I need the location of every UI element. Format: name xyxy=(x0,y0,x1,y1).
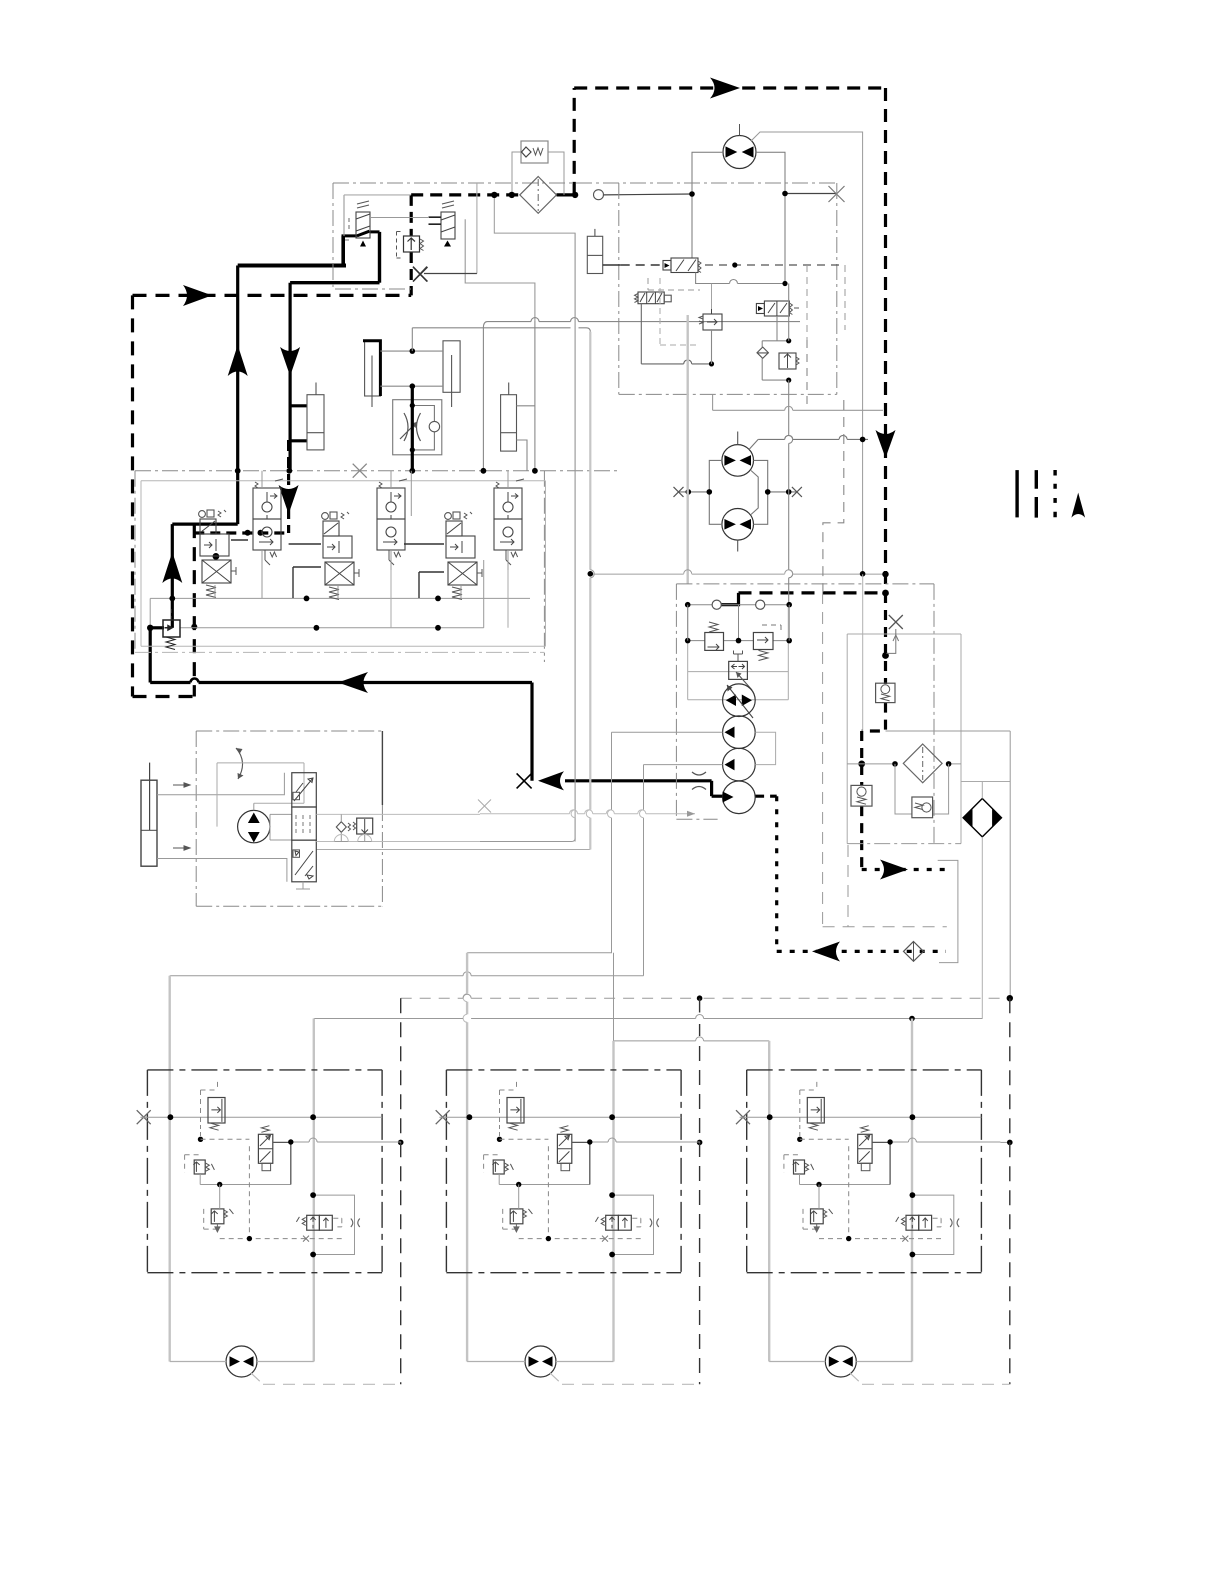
wire V4 top feed xyxy=(390,471,392,570)
legend solid bar xyxy=(1015,470,1018,517)
legend arrow xyxy=(1071,493,1085,518)
wire column x573 from filter drain xyxy=(574,233,576,841)
motor M1 shaft stub xyxy=(739,124,741,136)
wire x169 down to block1 xyxy=(168,976,170,1362)
wire V2 top feed xyxy=(261,471,263,599)
relief RV3 spring right xyxy=(796,357,799,365)
wire bold dashed horizontal y533 under valve1 xyxy=(194,531,288,534)
enclosure box1 right edge xyxy=(836,183,838,394)
wire CYL2-CYL3 bottom link xyxy=(380,385,443,387)
wire column x611 pump2 supply down xyxy=(467,732,611,953)
wire bold vertical x150 xyxy=(149,628,152,683)
wire P2 left supply to x611 xyxy=(612,731,723,733)
relief R-LS spring below xyxy=(166,637,175,650)
valve SV2 tab right xyxy=(664,295,671,302)
X plug left xyxy=(413,267,427,282)
wire PV1 to PV2 gray xyxy=(370,217,429,219)
wire bold dashed pump outlet y592 xyxy=(739,591,886,594)
reducing valve PR1 body xyxy=(703,314,722,330)
wire DV1 out upper y814 xyxy=(316,813,480,815)
wire bold vertical x532 xyxy=(530,683,533,781)
motor WM3 arrows xyxy=(829,1356,853,1367)
valve PV2 spring top xyxy=(442,201,454,208)
wire gray box top under dashes xyxy=(344,194,411,196)
wire column x643 pump3 supply down xyxy=(643,765,645,976)
wire return rail y1018 xyxy=(314,1018,983,1020)
valve PV2 supply stubs black xyxy=(429,217,442,224)
pump P4 arrow xyxy=(723,792,734,803)
spring SPL xyxy=(348,822,356,831)
wire corner x575 to y842 xyxy=(572,838,576,842)
relief R-LS body xyxy=(163,609,180,650)
wire dashed x807 pilot xyxy=(806,340,808,410)
cylinder CYL1 (left) xyxy=(307,395,324,450)
arrow down on x288 dashed xyxy=(279,485,299,514)
wire bold vertical x290 down to bank top xyxy=(289,283,292,471)
motor M2 circle xyxy=(722,445,754,477)
wire PV2 output loop xyxy=(465,219,535,321)
wire bold horizontal y524 xyxy=(172,522,237,525)
wire V6 load line down xyxy=(507,570,509,628)
junction dot motor leg xyxy=(689,191,695,197)
motor HM1 circle xyxy=(238,810,270,842)
wire pale y813 with hops xyxy=(480,813,695,815)
arrow right on y869 dotted xyxy=(880,860,908,880)
junction dot y386 xyxy=(410,383,416,389)
valve bank V6 xyxy=(494,479,524,565)
arrow left on y951 dotted xyxy=(812,942,840,962)
wire bold horizontal y780 to pump suction xyxy=(565,779,712,782)
wire tank box to x1010 y781 xyxy=(961,782,1010,799)
wire DV1 bottom drain xyxy=(296,882,310,889)
wire bold dashed left border vertical x132 xyxy=(131,295,134,696)
arrow right on y295 dashed xyxy=(183,285,212,306)
hop arc y283 xyxy=(730,280,738,284)
arrow up on x172 xyxy=(162,552,182,583)
link LS V2-V3 xyxy=(289,543,321,545)
relief RP2 spring bottom xyxy=(759,650,768,660)
wire V3 drain xyxy=(337,585,339,598)
arrow left on y682 xyxy=(338,672,368,693)
pump P1 variable circle xyxy=(723,684,756,717)
arrow right on top dashed line xyxy=(710,78,740,99)
wire plug stub to bold line xyxy=(887,629,896,653)
arrow right small on y813 xyxy=(687,811,695,817)
wire V6 top feed xyxy=(507,471,509,570)
motor WM2 circle xyxy=(525,1346,556,1377)
valve SV3 spring right xyxy=(789,303,799,315)
wire bold dashed below case relief to corner xyxy=(862,703,886,731)
wire WM1 drain diagonal dashed xyxy=(251,1373,401,1384)
pump P1 swash diagonal xyxy=(727,685,753,718)
junction dots left port xyxy=(686,489,692,495)
wire x411 bank branch xyxy=(410,471,412,516)
relief RP2 body xyxy=(753,633,773,650)
wire bold dashed pump4 case drain xyxy=(755,795,777,798)
wire tank to valve upper xyxy=(157,773,284,795)
enclosure box1 left edge xyxy=(618,183,620,394)
wire WM3 legs xyxy=(769,1361,912,1363)
wire bold dashed vertical filter to top xyxy=(573,88,576,195)
wire bold vertical x711 xyxy=(710,781,713,796)
junction dots right port xyxy=(765,489,771,495)
case relief CR1 body xyxy=(876,683,895,702)
wire bold dashed x885 down to case relief xyxy=(884,593,887,684)
valve PV2 drain triangle xyxy=(444,241,451,247)
valve bank V4 xyxy=(377,479,407,565)
valve SV1 solenoid xyxy=(663,261,671,271)
junction dots loop xyxy=(786,338,791,343)
check valve CK3 xyxy=(757,347,769,358)
wire motor to valve ports xyxy=(254,803,292,840)
pump P3 circle xyxy=(723,748,756,781)
wire SV2 drain down xyxy=(640,304,642,364)
link V1-V2 xyxy=(231,539,248,541)
cylinder CYL4 (right) xyxy=(501,395,517,451)
wheel block WB2 xyxy=(436,1070,700,1273)
wire coupler column down xyxy=(981,837,983,1019)
wire DV1 out lower y841 xyxy=(316,841,480,843)
valve PV1 pilot dashes left xyxy=(345,218,352,240)
relief RP2 pilot dashes xyxy=(762,625,781,632)
motor HM1 arrows xyxy=(248,813,260,843)
pilot dashes inside box1 xyxy=(807,265,845,340)
valve SV3 (solenoid right) body xyxy=(764,301,789,316)
valve PV1 spring top xyxy=(357,201,369,208)
relief CR2 body xyxy=(851,785,872,806)
arrow down on right dashed vertical xyxy=(876,430,896,458)
junction dots y998 xyxy=(697,995,703,1001)
wire patch block3 pilot to x1009 xyxy=(1000,1141,1009,1143)
wire left port y491 xyxy=(679,491,710,493)
enclosure right edge solid part xyxy=(381,731,383,805)
wire motor M1 case drain diagonal to right column xyxy=(751,132,863,183)
wire relief row y640 xyxy=(688,640,790,642)
valve bank V2 xyxy=(253,479,283,565)
link bank feed diagonal V5 xyxy=(419,572,444,598)
wire P3 left supply to x643 xyxy=(644,764,723,766)
wire gray x344 xyxy=(343,195,345,236)
relief RP1 spring top xyxy=(709,622,718,632)
wire black line motor1 right leg to plug xyxy=(785,193,837,195)
enclosure dash-dot box xyxy=(196,731,382,906)
wire bold filter outlet segment xyxy=(557,193,576,196)
wire y363 link xyxy=(641,360,711,364)
wire black from CYL-R to dashed pilot valve line xyxy=(603,264,621,266)
valve SV1 (on dashed y265) body xyxy=(671,258,698,273)
drain bracket right xyxy=(938,860,958,962)
motor WM1 circle xyxy=(226,1346,257,1377)
wire bank collector y627 xyxy=(180,627,484,629)
cylinder CYL2 (vertical, bold edge) xyxy=(365,341,381,396)
wheel block WB1 xyxy=(137,1070,401,1273)
relief RP1 body xyxy=(705,633,724,651)
wire bold dashed x861 down xyxy=(860,731,863,786)
wire V4 load line down xyxy=(390,570,392,628)
check valve CKP2 xyxy=(756,600,765,609)
hop arcs y439 xyxy=(785,435,847,439)
motor M3 circle xyxy=(722,509,754,541)
compensator CMP arrow diag xyxy=(736,672,752,690)
X plug left of motors xyxy=(674,487,684,497)
valve PV2 body xyxy=(441,212,455,239)
wire bold dashed vertical x288 into bank xyxy=(287,440,290,533)
wire right column x862 into box xyxy=(862,183,864,575)
junction dots rail xyxy=(685,602,691,608)
wire dashed feed y998 xyxy=(401,997,1010,999)
return filter RF1 diamond xyxy=(903,744,942,783)
wire V5 drain xyxy=(460,585,462,598)
cylinder CYL3 xyxy=(443,341,460,393)
wire black line filter to motor1 left leg xyxy=(603,193,692,196)
motor M1 arrows xyxy=(726,146,754,157)
motor frame xyxy=(217,763,304,827)
wire bold vertical x237 down to valve bank xyxy=(236,266,239,525)
wire WM2 legs xyxy=(467,1361,613,1363)
wire bold stub to cylinder1 rod end xyxy=(289,439,307,442)
wire bold vertical x172 xyxy=(171,524,174,628)
junction dots filter line xyxy=(491,192,497,198)
arrow right lower xyxy=(173,846,190,850)
wire PR1 to y363 xyxy=(711,330,713,364)
check CK3 vertical loop xyxy=(761,341,763,380)
check valve CV-F spring xyxy=(533,148,543,155)
motor WM2 arrows xyxy=(529,1356,553,1367)
wire SV3 down to loop xyxy=(776,316,778,341)
X plug at end of return line xyxy=(517,773,532,788)
compensator CMP body xyxy=(729,661,748,679)
wire column x590 hop xyxy=(589,332,591,850)
wire P2 right link xyxy=(755,732,775,764)
enclosure tank gray box xyxy=(847,634,961,844)
wire inner drop x862 xyxy=(862,574,864,731)
valve bank V5 xyxy=(445,512,482,600)
relief RVL body xyxy=(357,818,373,834)
wire WM3 drain diagonal dashed xyxy=(850,1373,1010,1384)
wire SV1 outlet down-right xyxy=(696,273,785,284)
enclosure bank gray rect xyxy=(141,481,546,647)
pump P2 circle xyxy=(723,716,756,749)
junction dot y351 xyxy=(410,348,416,354)
check CKL ball xyxy=(336,822,346,833)
valve SV1 spring right xyxy=(698,261,701,273)
wire bold pump outlet check segment xyxy=(721,593,739,605)
wire x150 above relief xyxy=(149,598,151,627)
junction dot x861 y763 xyxy=(858,761,865,768)
wire dashed column x699 xyxy=(699,998,701,1384)
wire bold dashed top horizontal xyxy=(574,86,885,89)
wire bold dashed vertical x411 (relief branch) xyxy=(410,195,413,236)
wire pump outlet rail y604 xyxy=(688,604,790,606)
junction dots y1142 at dashed columns xyxy=(398,1140,404,1146)
wire bold dashed vertical x194 valve bank to bottom xyxy=(193,524,196,696)
pump P2 arrow xyxy=(725,727,735,739)
wire x412 up from top link xyxy=(411,328,413,351)
wire y410 drain xyxy=(713,409,883,411)
wire bold dashed x861 below relief to corner xyxy=(860,806,863,869)
X plug right of motors xyxy=(792,487,802,497)
wire x769 block3 left pale xyxy=(768,1041,770,1362)
wire y439 to right xyxy=(758,438,868,440)
wire bank collector y598 xyxy=(150,597,530,599)
junction dot inside V1 xyxy=(213,553,220,560)
junction dot pump outlet x885 xyxy=(882,590,889,597)
wire bold horizontal y265 xyxy=(238,264,346,268)
pump control gray box xyxy=(688,605,789,700)
wire WM1 legs xyxy=(170,1361,314,1363)
wire x483 from y627 up xyxy=(483,560,485,628)
wire x912 down to block3 right xyxy=(911,1019,913,1362)
enclosure tank bottom dash-dot xyxy=(847,843,961,845)
wire CYL2-CYL3 top link xyxy=(380,350,443,352)
enclosure bank dash-dot outer xyxy=(135,471,619,662)
junction dot x885 y655 xyxy=(882,652,889,659)
coupler diamond black wings xyxy=(963,799,1001,837)
relief RV2 pilot dashed bracket xyxy=(397,232,404,259)
wire bold horizontal into pump4 xyxy=(712,795,724,798)
wire M2-M3 left bracket xyxy=(709,460,722,524)
motor M3 stem xyxy=(737,540,739,551)
enclosure dashed box lower xyxy=(823,592,947,927)
wire bold staircase: valve active leg xyxy=(341,236,345,266)
link LS V4-V5 xyxy=(404,543,444,545)
wire bold horizontal into relief R-LS xyxy=(150,626,164,629)
wire x712 stub xyxy=(712,394,714,410)
wire bold dotted y951 xyxy=(777,950,946,953)
wire PR1 top to y283 xyxy=(711,284,713,310)
wire side rails xyxy=(688,605,790,641)
flow control FC1 box xyxy=(393,400,442,455)
hop arcs y321 xyxy=(483,318,578,328)
wire bold vertical x379 xyxy=(378,232,381,283)
pump P4 circle xyxy=(723,781,756,814)
wire x313 down to block1 right xyxy=(313,1019,315,1362)
wire CYL4 ports right xyxy=(517,406,535,471)
motor M2 stem xyxy=(737,432,739,445)
check valve CKP1 xyxy=(712,600,721,609)
enclosure box1 bottom edge xyxy=(619,393,837,395)
wire x483 down to bank xyxy=(482,328,484,471)
wire x613 block2 right pale xyxy=(612,1041,614,1362)
wire long line y573 xyxy=(593,573,886,575)
wire pale column x687 xyxy=(687,315,689,584)
wire y1040 block2-block3 xyxy=(614,1040,770,1042)
motor M1 circle xyxy=(723,136,756,169)
wire bold dashed horizontal y295 xyxy=(133,294,412,297)
wire y842 from column left to motor-valve xyxy=(316,841,571,843)
arrow left on y780 xyxy=(538,771,564,790)
arrow right upper xyxy=(173,783,190,787)
wire dashed x843 from box1 xyxy=(823,400,844,592)
flow control FC1 bypass w/ check xyxy=(412,406,434,450)
valve DV1 side tabs xyxy=(293,792,300,799)
wire bold stub to cylinder1 cap xyxy=(289,404,307,407)
filter F1 diamond xyxy=(520,177,557,214)
X plug at left of y813 xyxy=(478,800,491,813)
hop arcs x788 xyxy=(789,435,793,577)
enclosure top-left pilot group xyxy=(333,182,837,184)
relief RV3 body xyxy=(779,353,796,369)
X plug symbol right of motor1 xyxy=(829,186,845,202)
filter F1 element dash-dot xyxy=(537,179,539,211)
wire x476 vertical xyxy=(476,183,478,274)
wire right port y491 xyxy=(768,491,797,493)
junction dots filter xyxy=(892,761,898,767)
valve SV2 spring left xyxy=(635,294,639,303)
wire bold horizontal y282 xyxy=(290,281,379,284)
rotation arc xyxy=(236,748,243,779)
enclosure pump dash-dot box xyxy=(676,584,934,844)
wire bold dotted drain y869 xyxy=(862,868,948,871)
wire V1 drain xyxy=(214,585,216,598)
cylinder CYL-R (right of filter area) xyxy=(587,236,602,273)
legend dotted bar xyxy=(1053,470,1056,517)
check valve CV-F box above filter xyxy=(521,141,548,163)
wire motor M1 right leg xyxy=(756,152,785,283)
wire loop y380 xyxy=(762,379,789,381)
wheel block WB3 xyxy=(736,1070,1000,1273)
motor WM1 arrows xyxy=(230,1356,254,1367)
wire x534 from pilot loop down to bank xyxy=(534,321,536,471)
relief RV2 spring right xyxy=(420,239,424,251)
wire corner x590 to y849 xyxy=(316,849,590,851)
bypass relief RB1 body xyxy=(912,797,933,818)
wire bold dashed right vertical down to pump line xyxy=(884,88,887,593)
wire x738 rail to relief row xyxy=(738,605,740,641)
wire y975 to block1 xyxy=(170,975,644,977)
valve PV1 body xyxy=(356,212,370,238)
wire y327 to x483 xyxy=(412,328,590,332)
link bank feed diagonal V3 xyxy=(293,567,321,598)
relief R-LS pilot dash xyxy=(171,609,173,620)
arrow up on x237 xyxy=(228,345,248,376)
wire bold dotted x776 down xyxy=(775,796,778,951)
motor WM3 circle xyxy=(825,1346,856,1377)
flow control FC1 check ball xyxy=(429,421,439,431)
flow control FC1 throttle arcs xyxy=(404,413,421,441)
wire loop y340 xyxy=(762,340,789,342)
wire filter bypass loop up xyxy=(512,152,564,195)
X plug top (above return filter) xyxy=(889,615,903,629)
junction dot x862 y441 xyxy=(860,437,866,443)
line break symbol on y780 xyxy=(692,772,706,790)
wire x1010 column xyxy=(1009,731,1011,999)
junction dots on y533 xyxy=(245,530,251,536)
junction dots bank top xyxy=(235,468,241,474)
quick coupler small diamond on dotted xyxy=(904,942,924,962)
wire black dashed y265 toward box1 valve xyxy=(621,264,663,266)
wire bold return horizontal y682 xyxy=(150,681,532,684)
junction dot y1018 x912 xyxy=(909,1016,915,1022)
valve SV2 (3pos, left) body xyxy=(638,292,664,304)
valve bank V3 xyxy=(322,512,359,600)
directional valve DV1 stack xyxy=(292,773,317,807)
compensator CMP handle xyxy=(734,651,743,662)
motor M2 arrows xyxy=(724,455,751,466)
wire y731 gray from bold corner xyxy=(886,730,1011,732)
reducing valve PR1 spring left xyxy=(699,316,703,324)
X plug near relief xyxy=(413,267,428,282)
junction dot on dashed y265 xyxy=(732,262,737,267)
wire dashed column x400 xyxy=(400,998,402,1384)
wire M2-M3 right bracket xyxy=(754,460,768,524)
wire M2 top diagonal to y439 xyxy=(749,439,758,449)
wire bold dashed filter inlet segment xyxy=(411,193,520,196)
wire dashed y265 right of SV1 xyxy=(705,264,845,266)
wire M2-M3 right S-link xyxy=(751,471,758,515)
wire bold dashed bottom stub y696 xyxy=(133,695,195,698)
junction dots FC1 xyxy=(410,403,415,408)
